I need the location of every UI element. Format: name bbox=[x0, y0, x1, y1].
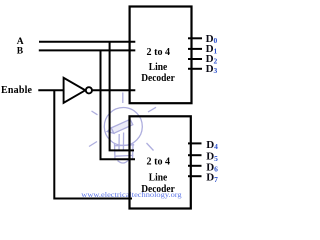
output stub D7 bbox=[188, 175, 202, 177]
bottom decoder box U3 bbox=[130, 116, 191, 208]
wire A branch down to bottom decoder bbox=[110, 42, 134, 151]
wire Enable branch down to bottom decoder E bbox=[54, 90, 132, 198]
svg-text:Decoder: Decoder bbox=[141, 72, 175, 84]
output stub D4 bbox=[188, 142, 202, 144]
svg-text:2 to 4: 2 to 4 bbox=[147, 46, 171, 58]
output stub D2 bbox=[188, 58, 202, 60]
svg-text:Line: Line bbox=[149, 171, 168, 183]
wire B bbox=[39, 49, 136, 51]
wire inverter output to top decoder E bbox=[92, 89, 135, 91]
wire B branch down to bottom decoder bbox=[101, 50, 136, 159]
wire Enable input bbox=[38, 89, 63, 91]
svg-text:B: B bbox=[17, 46, 24, 56]
output stub D5 bbox=[188, 154, 202, 156]
output stub D3 bbox=[188, 68, 202, 70]
wire A bbox=[39, 41, 135, 43]
top decoder box U2 bbox=[130, 7, 192, 104]
inverter U1 bbox=[64, 78, 86, 103]
output stub D1 bbox=[188, 48, 202, 50]
svg-text:Decoder: Decoder bbox=[141, 183, 175, 195]
output stub D0 bbox=[188, 37, 202, 39]
svg-text:A: A bbox=[17, 37, 24, 47]
svg-text:2 to 4: 2 to 4 bbox=[147, 155, 171, 167]
inverter bubble bbox=[86, 87, 92, 93]
output stub D6 bbox=[188, 165, 202, 167]
svg-text:Enable: Enable bbox=[1, 85, 33, 96]
watermark light-bulb logo bbox=[89, 93, 156, 164]
